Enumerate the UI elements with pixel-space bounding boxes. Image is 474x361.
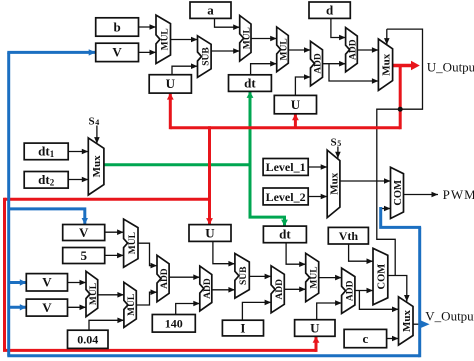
wire a to MUL2: [215, 18, 240, 30]
svg-text:5: 5: [80, 248, 87, 263]
svg-text:Mux: Mux: [381, 53, 393, 76]
svg-text:PWM: PWM: [443, 187, 474, 202]
block d: [309, 2, 350, 18]
svg-text:ADD: ADD: [314, 53, 324, 74]
svg-text:ADD: ADD: [203, 278, 213, 299]
svg-text:dt: dt: [244, 75, 256, 90]
svg-text:MUL: MUL: [89, 283, 99, 305]
wire Mux3 to COM1: [340, 178, 391, 184]
junction dot feedback-red: [398, 107, 403, 112]
wire red arrow into U box top-left: [167, 93, 174, 129]
block dt1: [24, 143, 68, 160]
svg-text:b: b: [113, 19, 120, 34]
label V_Output: [425, 308, 474, 323]
wire ADD3 to ADD4: [169, 274, 200, 280]
svg-text:S: S: [89, 115, 95, 127]
svg-text:U: U: [205, 225, 215, 240]
wire MUL6 to ADD3 lower: [136, 289, 157, 305]
block U mid: [189, 225, 231, 242]
wire I to ADD5 lower: [242, 300, 271, 321]
block U top-left: [149, 75, 191, 93]
multiplier MUL1: [156, 15, 171, 63]
wire blue hook to COM1: [381, 207, 421, 227]
block 140: [152, 315, 195, 333]
block V input top: [96, 43, 139, 61]
adder ADD2: [346, 28, 359, 72]
wire feedback top: [377, 29, 423, 275]
multiplexer Mux1: [378, 39, 392, 90]
multiplier MUL2: [240, 16, 253, 62]
svg-text:ADD: ADD: [275, 279, 285, 300]
wire blue right vertical: [418, 227, 421, 357]
svg-text:V: V: [42, 275, 52, 290]
wire dt1 to Mux2: [68, 149, 88, 155]
adder ADD1: [311, 41, 324, 86]
wire MUL1 to SUB1: [171, 37, 198, 43]
svg-text:MUL: MUL: [309, 266, 319, 288]
svg-text:d: d: [326, 3, 334, 18]
comparator COM1: [391, 167, 405, 218]
wire V to MUL5 lower: [68, 305, 87, 311]
wire ADD6 to COM2 lower: [355, 288, 373, 294]
wire V to MUL4: [105, 229, 124, 235]
svg-text:Vth: Vth: [339, 229, 359, 243]
block V lower-2: [26, 299, 67, 316]
block Vth: [328, 227, 368, 244]
svg-text:U: U: [310, 320, 320, 335]
multiplexer Mux4: [399, 297, 414, 345]
svg-text:V: V: [42, 300, 52, 315]
wire ADD6 branch to Mux4: [359, 291, 398, 313]
wire c to Mux4: [387, 336, 399, 342]
wire green up into dt box top: [247, 91, 254, 166]
block dt2: [24, 172, 68, 189]
svg-text:S: S: [331, 136, 337, 148]
svg-text:ADD: ADD: [349, 39, 359, 60]
multiplier MUL4: [124, 219, 138, 267]
label PWM: [443, 187, 474, 202]
wire MUL2 to MUL3: [251, 36, 277, 42]
label S4 select: [89, 115, 95, 127]
svg-text:0.04: 0.04: [77, 333, 98, 347]
block V mid: [63, 225, 105, 241]
comparator COM2: [373, 248, 388, 304]
block dt lower: [263, 226, 306, 243]
label S5 select: [331, 136, 337, 148]
adder ADD4: [200, 266, 213, 311]
block 5: [63, 248, 105, 264]
svg-text:MUL: MUL: [242, 27, 252, 49]
wire d to ADD2: [331, 18, 346, 40]
wire blue to V box top-left: [7, 49, 95, 55]
svg-text:dt: dt: [279, 227, 291, 242]
block c: [344, 329, 387, 347]
wire blue branch to V box mid: [9, 209, 88, 225]
wire blue-black into COM1 lower: [381, 206, 391, 212]
svg-text:COM: COM: [377, 264, 388, 290]
wire red second horizontal: [5, 198, 212, 201]
wire MUL5 to MUL6: [98, 292, 124, 298]
wire MUL7 to ADD6: [319, 275, 342, 281]
svg-text:U: U: [166, 76, 176, 91]
block U top-mid: [274, 95, 316, 113]
wire U to ADD6 lower: [317, 300, 342, 320]
wire ADD2 to Mux1: [357, 47, 378, 53]
svg-text:COM: COM: [393, 180, 404, 206]
wire SUB2 to ADD5: [249, 274, 271, 280]
wire ADD1 branch to Mux1 lower: [329, 64, 378, 84]
wire red bottom horizontal: [3, 349, 316, 352]
svg-text:140: 140: [165, 317, 183, 331]
block U bottom: [295, 320, 335, 337]
wire dt to MUL7 upper: [286, 243, 306, 267]
svg-text:Mux: Mux: [329, 172, 341, 195]
wire V to MUL5 upper: [68, 280, 87, 286]
svg-text:ADD: ADD: [160, 268, 170, 289]
wire MUL3 to ADD1: [288, 47, 310, 53]
wire ADD4 to SUB2: [212, 287, 235, 293]
multiplexer Mux2: [88, 138, 104, 195]
wire dt2 to Mux2: [68, 177, 88, 183]
wire Level_1 to Mux3: [308, 164, 327, 170]
svg-text:Mux: Mux: [401, 310, 413, 333]
svg-text:ADD: ADD: [345, 280, 355, 301]
svg-text:U: U: [291, 97, 301, 112]
adder ADD5: [271, 266, 285, 313]
multiplier MUL6: [124, 282, 137, 327]
wire ADD5 to MUL7: [284, 287, 305, 293]
svg-text:SUB: SUB: [239, 266, 249, 285]
svg-text:5: 5: [337, 139, 341, 148]
wire red U_Output arrow: [393, 61, 420, 70]
wire S4 select arrow: [94, 126, 100, 144]
wire blue to V box lower-2: [9, 304, 27, 310]
block dt top: [229, 75, 272, 92]
wire red arrow into U box bottom: [313, 336, 320, 352]
label U_Output: [427, 60, 474, 75]
wire COM1 to PWM: [403, 192, 439, 198]
wire red left vertical: [3, 198, 6, 351]
adder ADD3: [157, 255, 170, 301]
wire ADD1 to ADD2: [323, 61, 346, 67]
wire blue to V box lower-1: [9, 279, 27, 285]
wire red arrow into U box top-mid: [292, 114, 299, 128]
wire Vth to COM2: [349, 244, 373, 264]
wire Mux1 feedback loop: [384, 29, 390, 44]
svg-text:Level_1: Level_1: [266, 160, 306, 174]
wire SUB1 to MUL2: [211, 48, 240, 54]
wire S5 select arrow: [335, 147, 341, 159]
svg-text:Mux: Mux: [91, 155, 103, 178]
multiplier MUL3: [277, 27, 290, 72]
svg-text:V: V: [79, 225, 89, 240]
multiplexer Mux3: [327, 150, 340, 218]
wire 0.04 to MUL6: [89, 318, 124, 331]
wire Level_2 to Mux3: [308, 194, 327, 200]
svg-text:4: 4: [95, 118, 99, 127]
block 0.04: [68, 330, 109, 348]
block I: [222, 320, 263, 336]
label S4 subscript: [95, 118, 99, 127]
subtractor SUB2: [235, 254, 249, 299]
svg-text:SUB: SUB: [201, 47, 211, 66]
block Level_1: [263, 159, 308, 176]
wire b to MUL1: [139, 24, 157, 30]
wire U to SUB1 lower: [172, 63, 198, 74]
svg-text:Level_2: Level_2: [266, 190, 306, 204]
wire V to MUL1: [139, 50, 157, 56]
multiplier MUL5: [86, 271, 99, 316]
svg-text:MUL: MUL: [128, 232, 138, 254]
svg-text:V: V: [112, 45, 122, 60]
adder ADD6: [342, 268, 356, 313]
svg-text:V_Output: V_Output: [425, 308, 474, 323]
svg-text:MUL: MUL: [160, 28, 170, 50]
block V lower-1: [26, 274, 67, 291]
wire green down then right: [250, 163, 288, 226]
wire blue V feedback left vertical: [7, 52, 10, 355]
wire 5 to MUL4: [105, 253, 124, 259]
wire COM2 output to Mux4 select: [388, 276, 410, 302]
svg-text:U_Output: U_Output: [427, 60, 474, 75]
block Level_2: [263, 188, 308, 205]
wire blue bottom horizontal: [7, 354, 419, 357]
block a: [190, 2, 231, 18]
label S5 subscript: [337, 139, 341, 148]
svg-text:MUL: MUL: [127, 294, 137, 316]
block b: [96, 18, 139, 36]
wire U to ADD1 lower: [295, 74, 310, 95]
subtractor SUB1: [198, 36, 212, 78]
wire red vertical to U mid box: [206, 126, 213, 224]
svg-text:c: c: [363, 331, 369, 346]
svg-text:MUL: MUL: [280, 38, 290, 60]
wire dt to MUL3 lower: [251, 61, 277, 75]
wire 140 to ADD4 lower: [176, 301, 200, 315]
svg-text:I: I: [240, 320, 245, 335]
wire MUL4 to ADD3: [138, 243, 157, 268]
wire Mux4 output: [413, 323, 420, 325]
svg-text:a: a: [207, 3, 214, 18]
wire red vertical from Mux1 output: [399, 64, 402, 129]
wire U mid to SUB2 upper: [213, 241, 235, 266]
wire green horizontal from Mux2: [104, 163, 250, 166]
wire red main horizontal: [170, 126, 400, 129]
arrowhead blue V_Output: [420, 320, 430, 329]
multiplier MUL7: [306, 253, 320, 301]
